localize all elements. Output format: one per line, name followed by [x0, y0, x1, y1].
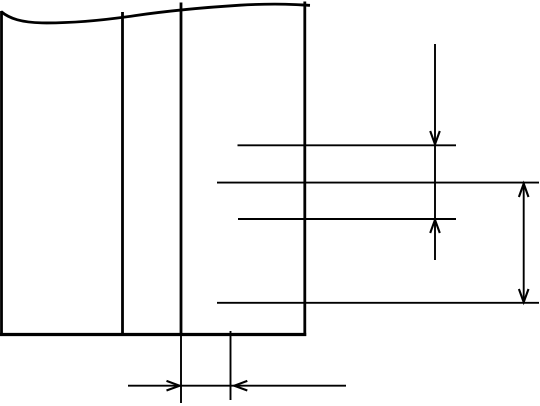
level line 1 (upper short) — [238, 144, 457, 146]
extension line below groove right wall — [180, 336, 182, 403]
arrowhead pointing left at x=234 — [234, 381, 247, 391]
level line 4 (lower long) — [217, 302, 539, 304]
vertical dimension line at x=435 — [434, 44, 436, 260]
level line 3 (lower short) — [238, 218, 456, 220]
arrowhead up onto line 2 — [519, 184, 529, 197]
arrowhead down onto line 4 — [519, 289, 529, 302]
extension line at x=230.5 — [230, 331, 232, 400]
arrowhead up onto line 3 — [430, 220, 440, 233]
left edge of part — [0, 11, 3, 336]
right edge of part — [303, 2, 306, 337]
break line (wavy top edge of part) — [1, 4, 310, 23]
arrowhead down onto line 1 — [430, 131, 440, 144]
bottom dimension line — [128, 385, 346, 387]
arrowhead pointing right at x=180 — [167, 381, 180, 391]
groove left wall line — [121, 12, 124, 336]
bottom edge of part — [0, 333, 306, 336]
vertical dimension double arrow at x=524 — [523, 183, 525, 302]
level line 2 (upper long) — [217, 182, 539, 184]
groove right wall line — [180, 3, 183, 337]
